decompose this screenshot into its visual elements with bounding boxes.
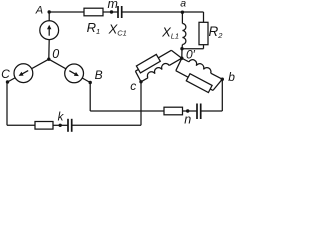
svg-text:A: A (35, 4, 43, 16)
wire a down to coil XL1 (181, 12, 183, 24)
inductor branch c (147, 64, 169, 78)
inductor branch b (189, 60, 211, 74)
node b (221, 78, 224, 81)
resistor in line B (164, 107, 183, 115)
wire A node to source EA (48, 12, 50, 21)
node n (186, 109, 189, 112)
svg-text:XL1: XL1 (161, 25, 179, 41)
wire capacitor to c corner (72, 124, 141, 126)
svg-text:a: a (180, 0, 186, 9)
wire coil to O' (branch c lower) (169, 58, 182, 65)
node c (139, 80, 142, 83)
svg-text:XC1: XC1 (108, 21, 127, 37)
wire R2 bottom to junction (182, 48, 204, 50)
wire resistor to capacitor line C (53, 124, 68, 126)
node O (47, 58, 50, 61)
node a (181, 11, 184, 14)
wire source EA to node O (48, 40, 50, 60)
svg-text:m: m (108, 0, 118, 11)
svg-text:0′: 0′ (186, 47, 196, 61)
wire up to b (221, 79, 223, 111)
junction of XL1 and R2 (180, 47, 183, 50)
svg-text:b: b (228, 70, 235, 84)
resistor branch c (136, 54, 160, 73)
EMF source EA (phase A) (40, 21, 59, 40)
svg-text:0: 0 (52, 47, 59, 61)
node k (59, 124, 62, 127)
wire coil XL1 to junction (181, 45, 183, 49)
wire corner down to R2 (203, 12, 205, 22)
wire coil to b (branch b upper) (211, 73, 223, 79)
inductor XL1 (182, 24, 186, 45)
node m (110, 10, 113, 13)
svg-text:R2: R2 (209, 24, 224, 40)
wire A to R1 (49, 11, 84, 13)
wire c up to resistor (branch c upper) (135, 71, 141, 82)
wire c to coil (branch c lower) (141, 78, 148, 82)
wire capacitor to b corner (201, 110, 223, 112)
node O' (180, 57, 183, 60)
svg-text:C: C (1, 67, 10, 81)
wire R1 to capacitor XC1 (103, 11, 118, 13)
wire up to c (140, 82, 142, 126)
wire XC1 to corner above R2 (122, 11, 204, 13)
wire R2 down (203, 45, 205, 49)
resistor R1 (84, 8, 103, 16)
wire B down (89, 83, 91, 112)
wire resistor to capacitor line B (183, 110, 198, 112)
EMF source EB (phase B) (65, 64, 84, 83)
svg-text:k: k (58, 111, 65, 123)
wire O' down to resistor (branch b lower) (176, 58, 182, 70)
capacitor in line B (197, 104, 201, 120)
wire O' to coil (branch b upper) (182, 58, 189, 62)
node A (48, 10, 51, 13)
resistor in line C (35, 122, 53, 130)
wire node O to source EC (8, 59, 49, 82)
capacitor in line C (68, 119, 72, 132)
resistor R2 (199, 22, 208, 44)
EMF source EC (phase C) (14, 64, 33, 83)
svg-text:R1: R1 (87, 20, 101, 36)
node B (89, 81, 92, 84)
resistor branch b (186, 74, 212, 93)
svg-text:n: n (184, 113, 191, 127)
wire B rail left (90, 110, 164, 112)
svg-text:B: B (95, 68, 103, 82)
wire node O to source EB (49, 59, 90, 82)
wire junction to node O' (181, 49, 183, 59)
wire C rail (7, 124, 35, 126)
node C (6, 80, 9, 83)
wire C down (6, 82, 8, 125)
capacitor XC1 (118, 6, 122, 18)
svg-text:c: c (130, 79, 136, 93)
